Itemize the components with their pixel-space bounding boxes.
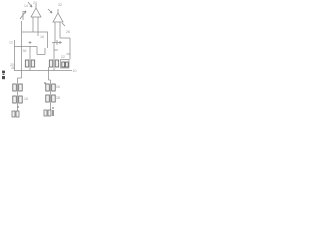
svg-text:24: 24: [33, 1, 37, 5]
svg-text:32: 32: [58, 3, 62, 7]
svg-text:16: 16: [40, 35, 44, 39]
svg-text:28: 28: [56, 96, 60, 100]
svg-text:10: 10: [73, 69, 77, 73]
svg-text:12: 12: [9, 41, 13, 45]
svg-text:18: 18: [24, 97, 28, 101]
svg-text:14: 14: [24, 4, 28, 8]
svg-text:26: 26: [66, 30, 70, 34]
svg-text:36: 36: [23, 49, 27, 53]
svg-text:22: 22: [61, 55, 65, 59]
svg-text:38: 38: [11, 66, 15, 70]
svg-text:26: 26: [56, 85, 60, 89]
